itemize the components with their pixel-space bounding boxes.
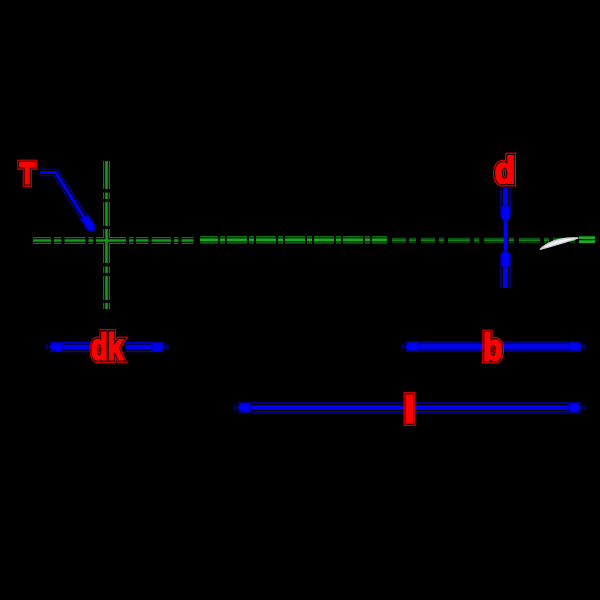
svg-text:b: b bbox=[483, 327, 503, 368]
svg-text:T: T bbox=[20, 158, 35, 191]
svg-text:dk: dk bbox=[91, 327, 123, 368]
svg-text:l: l bbox=[404, 390, 414, 431]
svg-text:d: d bbox=[495, 150, 516, 191]
